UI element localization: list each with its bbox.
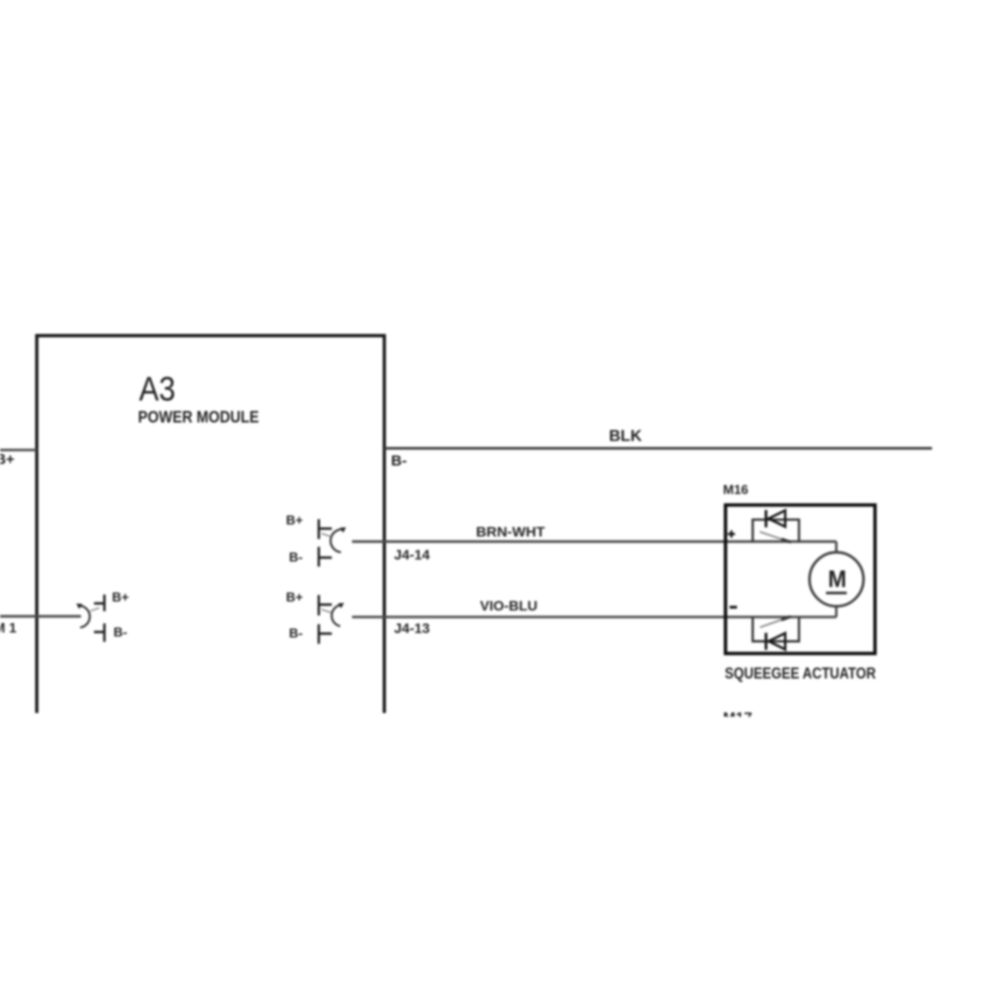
plus terminal mark [728,533,735,535]
svg-text:M17: M17 [723,709,752,726]
svg-text:BLK: BLK [609,428,642,445]
svg-text:B+: B+ [286,590,303,605]
switch SW-J413 blade stub [322,609,331,612]
svg-text:M 1: M 1 [0,621,17,636]
contact B- (M1 switch) [94,631,104,633]
contact B- (J4-13 switch) [318,624,320,644]
upper bypass loop [753,520,799,542]
lower bypass loop [753,617,799,641]
switch SW-J413 arc arrow [332,605,342,626]
power module A3 box outline [37,336,385,713]
wire BLK (B- output) [384,447,932,450]
svg-text:B+: B+ [112,590,129,605]
switch SW-J414 arc arrow [331,529,344,552]
svg-text:POWER MODULE: POWER MODULE [138,408,259,427]
wire M1 (left edge) [0,615,81,618]
wire to motor top [835,542,837,553]
wire to motor bottom [835,606,837,617]
diode CR1 [765,510,768,527]
svg-text:B-: B- [391,453,407,470]
svg-text:B-: B- [289,626,303,641]
limit switch (lower) [760,618,787,627]
contact B+ (J4-13 switch) [318,595,320,615]
switch SW-M1 blade stub [91,608,100,611]
svg-text:VIO-BLU: VIO-BLU [480,598,538,614]
svg-text:A3: A3 [139,371,176,409]
svg-text:J4-13: J4-13 [394,620,430,636]
wire VIO-BLU (J4-13 to actuator -) [352,616,836,619]
diode CR2 [765,633,768,650]
svg-text:B+: B+ [0,452,14,468]
svg-text:M: M [828,566,847,593]
svg-text:B-: B- [289,550,303,565]
switch SW-M1 arc arrow [79,606,90,628]
svg-text:B+: B+ [286,513,303,528]
wire B+ supply (left edge) [0,449,37,452]
svg-text:M16: M16 [723,482,748,497]
svg-text:BRN-WHT: BRN-WHT [476,524,545,540]
switch SW-J414 blade stub [322,533,331,536]
svg-text:J4-14: J4-14 [394,547,430,563]
contact B- (J4-14 switch) [318,547,320,567]
limit switch (upper) [760,532,787,541]
contact B+ (J4-14 switch) [318,519,320,539]
svg-text:SQUEEGEE ACTUATOR: SQUEEGEE ACTUATOR [725,666,876,683]
squeegee actuator M16 box [726,505,876,654]
svg-text:B-: B- [114,625,128,640]
wire BRN-WHT (J4-14 to actuator +) [352,540,836,543]
minus terminal mark [730,606,737,609]
contact B+ (M1 switch) [94,602,104,604]
motor M [810,552,864,606]
